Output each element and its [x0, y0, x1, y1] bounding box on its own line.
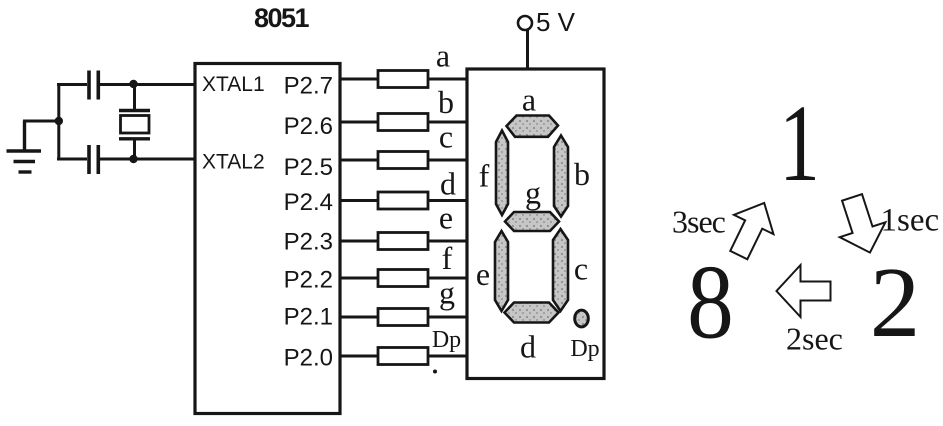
svg-text:c: c: [439, 119, 453, 155]
svg-text:P2.5: P2.5: [284, 154, 333, 181]
resistor R6: [378, 270, 428, 287]
capacitor C1: [89, 71, 98, 100]
svg-text:d: d: [520, 329, 536, 365]
svg-text:XTAL1: XTAL1: [202, 73, 265, 96]
wire P2.6 to R2: [340, 121, 378, 124]
svg-text:g: g: [525, 175, 541, 211]
svg-text:8051: 8051: [254, 3, 310, 33]
arrow 2 to 8 (2sec): [777, 265, 831, 317]
resistor R1: [378, 71, 428, 88]
resistor R4: [378, 192, 428, 209]
resistor R2: [378, 114, 428, 131]
wire C2 to XTAL2: [99, 158, 194, 161]
resistor R7: [378, 309, 428, 326]
ground: [7, 121, 42, 172]
wire P2.2 to R6: [340, 277, 378, 280]
capacitor C2: [89, 145, 98, 174]
wire P2.1 to R7: [340, 316, 378, 319]
svg-text:e: e: [476, 256, 490, 292]
svg-text:P2.4: P2.4: [284, 189, 333, 216]
svg-text:b: b: [438, 84, 454, 120]
svg-text:g: g: [439, 275, 455, 311]
svg-text:b: b: [574, 156, 590, 192]
svg-text:P2.0: P2.0: [284, 344, 333, 371]
svg-text:Dp: Dp: [570, 336, 599, 362]
arrow 8 to 1 (3sec): [719, 193, 784, 264]
svg-text:P2.3: P2.3: [284, 228, 333, 255]
svg-text:a: a: [522, 82, 536, 118]
IC U1 8051: [195, 64, 340, 414]
svg-text:5 V: 5 V: [536, 7, 576, 37]
svg-text:XTAL2: XTAL2: [202, 151, 265, 174]
wire R7 to display pin g: [428, 316, 466, 319]
wire P2.4 to R4: [340, 199, 378, 202]
svg-text:P2.2: P2.2: [284, 266, 333, 293]
svg-text:P2.1: P2.1: [284, 303, 333, 330]
svg-text:P2.6: P2.6: [284, 113, 333, 140]
segment f: [496, 131, 508, 216]
wire R6 to display pin f: [428, 277, 466, 280]
wire P2.7 to R1: [340, 78, 378, 81]
svg-text:2: 2: [870, 246, 921, 358]
segment c: [553, 229, 568, 311]
segment e: [495, 231, 508, 311]
svg-text:c: c: [574, 251, 588, 287]
resistor R8: [378, 348, 428, 365]
power 5V terminal: [518, 7, 576, 37]
segment g: [505, 212, 559, 231]
state digit 1: [779, 82, 820, 204]
7-segment display module DS1: [467, 69, 604, 379]
svg-text:Dp: Dp: [432, 327, 461, 353]
arrow 1 to 2 (1sec): [829, 190, 893, 260]
wire R3 to display pin c: [428, 159, 466, 162]
svg-text:e: e: [439, 200, 453, 236]
svg-text:d: d: [440, 166, 456, 202]
junction ground tap: [55, 117, 63, 125]
wire R5 to display pin e: [428, 240, 466, 243]
svg-text:P2.7: P2.7: [284, 73, 333, 100]
svg-text:1: 1: [779, 82, 820, 204]
stray dot mark: [433, 370, 437, 374]
resistor R5: [378, 233, 428, 250]
wire R8 to display pin Dp: [428, 355, 466, 358]
wire 5V to display: [526, 30, 529, 69]
wire top to C1: [57, 83, 87, 86]
svg-text:f: f: [479, 158, 490, 194]
wire R2 to display pin b: [428, 121, 466, 124]
svg-text:3sec: 3sec: [672, 204, 726, 240]
segment b: [554, 136, 568, 217]
svg-text:1sec: 1sec: [881, 203, 940, 239]
wire bottom to C2: [57, 158, 87, 161]
wire left bus: [57, 85, 60, 160]
state digit 8: [687, 243, 734, 361]
decimal point Dp: [575, 310, 589, 327]
svg-text:f: f: [442, 240, 453, 276]
resistor R3: [378, 152, 428, 169]
wire P2.0 to R8: [340, 355, 378, 358]
svg-text:8: 8: [687, 243, 734, 361]
junction node XTAL2: [129, 155, 137, 163]
wire R4 to display pin d: [428, 199, 466, 202]
wire ground to bus: [23, 120, 59, 123]
svg-text:2sec: 2sec: [786, 321, 843, 357]
wire C1 to XTAL1: [99, 83, 194, 86]
wire P2.5 to R3: [340, 159, 378, 162]
wire R1 to display pin a: [428, 78, 466, 81]
crystal Y1: [119, 85, 150, 160]
wire P2.3 to R5: [340, 240, 378, 243]
svg-text:a: a: [436, 38, 450, 74]
junction node XTAL1: [129, 80, 137, 88]
segment a: [507, 116, 559, 137]
segment d: [505, 303, 559, 323]
